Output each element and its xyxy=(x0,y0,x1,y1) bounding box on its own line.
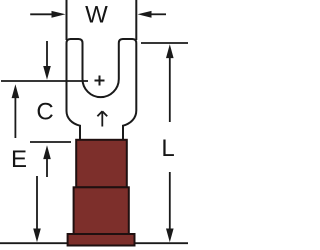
svg-text:E: E xyxy=(11,146,27,173)
dimension C reference line xyxy=(1,80,88,82)
dimension W right arrow xyxy=(138,11,167,18)
wire entry direction arrow xyxy=(97,111,107,126)
fork terminal outline xyxy=(67,39,137,140)
insulation barrel middle section xyxy=(74,187,129,234)
dimension L down arrow xyxy=(166,172,174,242)
stud centre cross mark xyxy=(95,76,105,86)
dimension C up arrow xyxy=(12,84,20,138)
dimension W left extension line xyxy=(66,0,68,40)
svg-text:L: L xyxy=(161,135,174,162)
insulation barrel top section xyxy=(76,140,127,188)
bottom extension line xyxy=(0,242,188,244)
svg-text:W: W xyxy=(85,2,108,29)
dimension E down arrow xyxy=(33,176,41,242)
svg-text:C: C xyxy=(36,99,53,126)
dimension W right extension line xyxy=(135,0,137,40)
dimension E top line xyxy=(30,141,71,143)
dimension L up arrow xyxy=(166,44,174,122)
dimension L top extension line xyxy=(141,42,188,44)
dimension C down arrow xyxy=(43,41,51,80)
insulation barrel bottom flange xyxy=(68,234,135,246)
dimension W left arrow xyxy=(30,11,65,18)
dimension E up arrow xyxy=(43,145,51,177)
